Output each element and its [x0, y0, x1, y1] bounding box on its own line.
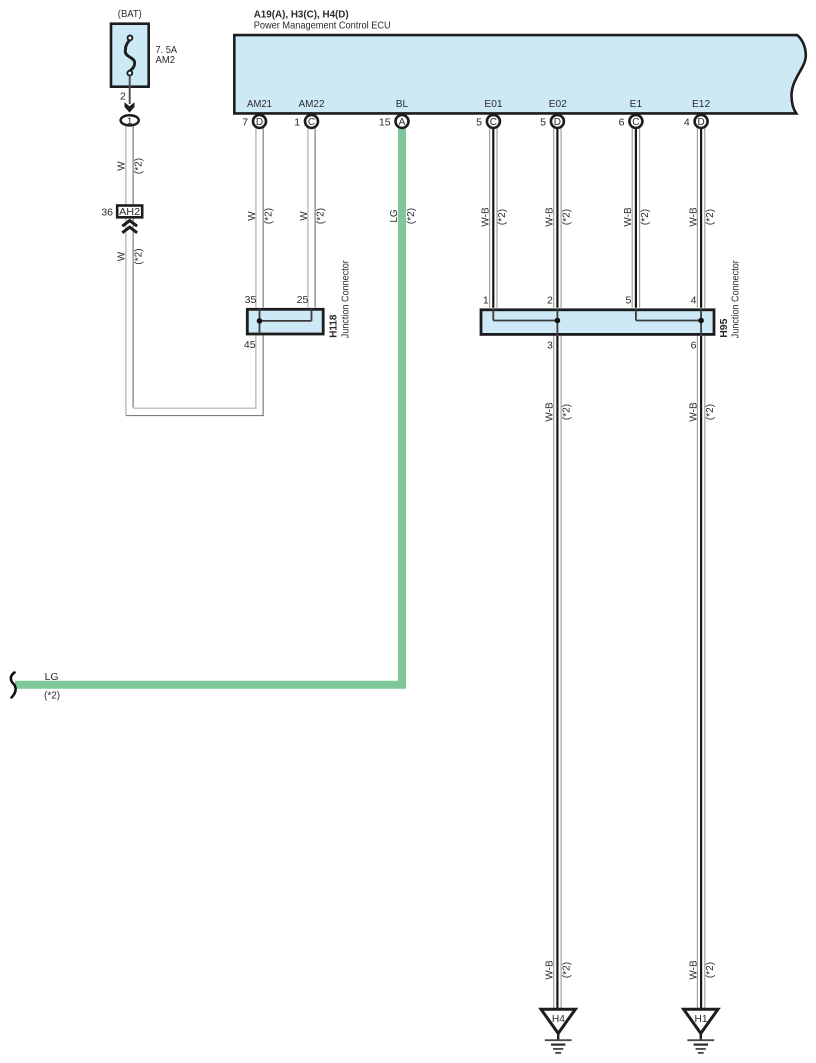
svg-text:(*2): (*2) [561, 209, 572, 225]
wire W AM22 to H118 pin 25 [308, 128, 315, 307]
svg-text:35: 35 [245, 294, 257, 306]
svg-text:2: 2 [547, 295, 553, 307]
svg-text:36: 36 [101, 207, 113, 219]
svg-text:D: D [697, 117, 704, 128]
svg-text:W: W [117, 161, 128, 171]
svg-text:5: 5 [476, 116, 482, 128]
svg-text:1: 1 [127, 116, 132, 127]
svg-text:W-B: W-B [545, 960, 556, 980]
svg-text:D: D [554, 117, 561, 128]
pin E12 number 4 connector D [684, 115, 708, 128]
svg-text:(*2): (*2) [133, 248, 144, 264]
svg-text:5: 5 [540, 116, 546, 128]
svg-text:(*2): (*2) [133, 158, 144, 174]
svg-text:A19(A), H3(C), H4(D): A19(A), H3(C), H4(D) [254, 9, 349, 21]
svg-text:6: 6 [619, 116, 625, 128]
svg-text:(*2): (*2) [44, 690, 60, 701]
svg-text:H95: H95 [718, 318, 730, 337]
svg-text:2: 2 [120, 90, 126, 102]
svg-text:C: C [308, 117, 315, 128]
svg-text:LG: LG [389, 209, 400, 223]
svg-text:5: 5 [625, 295, 631, 307]
svg-text:(*2): (*2) [497, 209, 508, 225]
svg-text:(*2): (*2) [315, 208, 326, 224]
svg-text:(*2): (*2) [561, 962, 572, 978]
svg-text:E1: E1 [630, 99, 643, 110]
ground H4 [541, 1009, 575, 1053]
svg-text:AM22: AM22 [299, 99, 325, 110]
continuation squiggle at left end of LG wire [11, 673, 16, 698]
svg-text:3: 3 [547, 340, 553, 352]
svg-text:W: W [117, 251, 128, 261]
fuse AM2 7.5A (BAT) [111, 9, 177, 87]
svg-text:1: 1 [483, 295, 489, 307]
ground H1 [684, 1009, 718, 1053]
svg-text:Power Management Control ECU: Power Management Control ECU [254, 21, 391, 32]
svg-text:W-B: W-B [545, 402, 556, 422]
wire W-B E1 to H95 pin 5 [632, 128, 639, 308]
svg-text:E12: E12 [692, 99, 710, 110]
svg-text:(*2): (*2) [263, 208, 274, 224]
svg-text:W-B: W-B [688, 207, 699, 227]
svg-text:45: 45 [244, 339, 256, 351]
svg-text:BL: BL [396, 99, 409, 110]
svg-text:(*2): (*2) [406, 208, 417, 224]
svg-text:(*2): (*2) [705, 404, 716, 420]
svg-text:(BAT): (BAT) [118, 9, 142, 20]
pin E01 number 5 connector C [476, 115, 500, 128]
svg-text:D: D [256, 117, 263, 128]
svg-text:6: 6 [691, 340, 697, 352]
svg-text:Junction Connector: Junction Connector [341, 260, 352, 339]
svg-text:H4: H4 [552, 1014, 565, 1025]
pin E1 number 6 connector C [619, 115, 643, 128]
arrow from fuse to node 1 [125, 102, 135, 112]
wire W-B H95 pin 3 to ground H4 [554, 336, 561, 1009]
wire W-B E12 to H95 pin 4 [697, 128, 704, 308]
wire W-B H95 pin 6 to ground H1 [697, 336, 704, 1009]
svg-text:15: 15 [379, 116, 391, 128]
junction connector H118 [247, 309, 323, 335]
wire W-B E01 to H95 pin 1 [490, 128, 497, 308]
svg-text:E02: E02 [549, 99, 567, 110]
svg-text:25: 25 [297, 294, 309, 306]
svg-text:AH2: AH2 [119, 207, 140, 218]
svg-text:W: W [299, 211, 310, 221]
svg-text:AM2: AM2 [156, 55, 176, 66]
svg-text:W: W [247, 211, 258, 221]
wire W-B E02 to H95 pin 2 [554, 128, 561, 308]
wire LG BL green run [15, 129, 402, 685]
svg-text:W-B: W-B [545, 207, 556, 227]
svg-text:A: A [399, 117, 406, 128]
svg-text:4: 4 [684, 116, 690, 128]
pin E02 number 5 connector D [540, 115, 564, 128]
splice chevrons below AH2 [122, 221, 137, 233]
wire W AM21 to H118 pin 35 [256, 128, 263, 307]
svg-text:(*2): (*2) [561, 404, 572, 420]
junction connector H95 [481, 309, 714, 335]
svg-text:W-B: W-B [688, 960, 699, 980]
connector AH2 pin 36 [101, 206, 142, 219]
svg-text:(*2): (*2) [640, 209, 651, 225]
svg-text:(*2): (*2) [705, 962, 716, 978]
svg-text:AM21: AM21 [247, 99, 272, 110]
svg-text:(*2): (*2) [705, 209, 716, 225]
pin BL number 15 connector A [379, 115, 409, 128]
svg-text:W-B: W-B [688, 402, 699, 422]
node 1 ellipse [121, 115, 139, 127]
pin AM21 number 7 connector D [242, 115, 266, 128]
svg-text:E01: E01 [484, 99, 502, 110]
svg-text:H118: H118 [328, 314, 340, 337]
svg-text:4: 4 [691, 295, 697, 307]
svg-text:1: 1 [294, 116, 300, 128]
svg-text:LG: LG [45, 671, 59, 683]
svg-text:7: 7 [242, 116, 248, 128]
svg-text:C: C [490, 117, 497, 128]
svg-text:C: C [632, 117, 639, 128]
wire fuse output lead [129, 76, 131, 105]
svg-text:W-B: W-B [623, 207, 634, 227]
ECU box Power Management Control ECU [234, 35, 806, 113]
svg-text:H1: H1 [694, 1014, 707, 1025]
pin AM22 number 1 connector C [294, 115, 318, 128]
svg-text:W-B: W-B [481, 207, 492, 227]
wire W battery run (fuse to H118 pin 45, U shape) [126, 126, 264, 416]
svg-text:Junction Connector: Junction Connector [731, 260, 742, 339]
